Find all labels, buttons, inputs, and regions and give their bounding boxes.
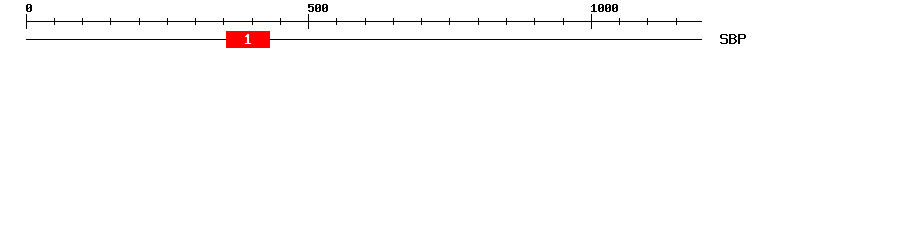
ruler minor tick 300 <box>195 18 196 25</box>
ruler minor tick 50 <box>54 18 55 25</box>
ruler minor tick 900 <box>534 18 535 25</box>
ruler minor tick 650 <box>393 18 394 25</box>
ruler minor tick 250 <box>167 18 168 25</box>
ruler baseline <box>26 21 702 22</box>
feature number 1 <box>245 34 251 44</box>
ruler major tick 0 <box>26 14 27 29</box>
ruler minor tick 600 <box>365 18 366 25</box>
ruler minor tick 950 <box>563 18 564 25</box>
scale label 0 <box>26 4 32 12</box>
ruler minor tick 150 <box>110 18 111 25</box>
scale label 1000 <box>591 4 618 12</box>
ruler minor tick 1100 <box>647 18 648 25</box>
sequence line <box>26 39 702 40</box>
ruler minor tick 850 <box>506 18 507 25</box>
ruler minor tick 450 <box>280 18 281 25</box>
ruler major tick 500 <box>308 14 309 29</box>
track label SBP <box>720 34 746 44</box>
ruler minor tick 550 <box>336 18 337 25</box>
ruler major tick 1000 <box>591 14 592 29</box>
ruler minor tick 1150 <box>676 18 677 25</box>
ruler minor tick 800 <box>478 18 479 25</box>
ruler minor tick 700 <box>421 18 422 25</box>
ruler minor tick 400 <box>252 18 253 25</box>
background <box>0 0 900 58</box>
ruler minor tick 350 <box>223 18 224 25</box>
feature box 1 (red domain) <box>226 31 270 48</box>
ruler minor tick 100 <box>82 18 83 25</box>
ruler minor tick 1050 <box>619 18 620 25</box>
ruler minor tick 750 <box>449 18 450 25</box>
scale label 500 <box>308 4 328 12</box>
ruler minor tick 200 <box>139 18 140 25</box>
